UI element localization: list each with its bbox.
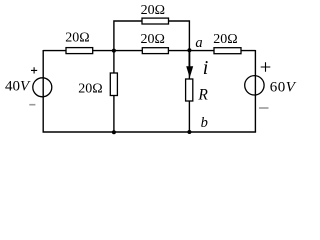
svg-text:60V: 60V: [270, 79, 297, 95]
minus sign (60V source): [259, 107, 269, 109]
resistor 20Ω middle vertical: [110, 73, 117, 96]
resistor 20Ω top-left horizontal: [66, 48, 93, 54]
voltage source 60V (circle): [245, 76, 264, 95]
svg-text:b: b: [201, 115, 208, 131]
wire middle vertical (20Ω branch): [113, 51, 115, 132]
plus sign (60V source): [261, 62, 271, 72]
svg-text:a: a: [195, 35, 202, 51]
resistor 20Ω top branch horizontal: [142, 18, 169, 24]
wire bottom horizontal: [43, 131, 257, 133]
svg-text:20Ω: 20Ω: [78, 82, 102, 97]
junction dot node b: [187, 130, 191, 134]
wire top parallel branch: [114, 21, 189, 51]
minus sign (40V source): [29, 104, 35, 106]
resistor 20Ω right horizontal: [214, 48, 241, 54]
junction dot node a: [187, 48, 191, 52]
wire main top horizontal (left corner to right corner): [43, 50, 255, 52]
svg-text:40V: 40V: [5, 78, 31, 94]
wire right vertical (60V branch): [254, 50, 256, 132]
svg-text:20Ω: 20Ω: [213, 32, 237, 47]
junction dot (middle top): [112, 49, 116, 53]
svg-text:R: R: [197, 87, 208, 104]
svg-text:20Ω: 20Ω: [65, 31, 89, 46]
voltage source 40V (circle): [33, 78, 52, 97]
junction dot (middle bottom): [112, 130, 116, 134]
svg-text:i: i: [203, 57, 209, 79]
plus sign (40V source): [31, 67, 37, 73]
wire node a to node b vertical (R branch): [188, 50, 190, 132]
resistor R vertical: [186, 79, 193, 101]
svg-text:20Ω: 20Ω: [141, 3, 165, 18]
wire left vertical (40V branch): [42, 50, 44, 132]
current arrow i (downward): [186, 51, 193, 78]
resistor 20Ω second horizontal (main wire): [142, 48, 168, 54]
svg-text:20Ω: 20Ω: [141, 32, 165, 47]
